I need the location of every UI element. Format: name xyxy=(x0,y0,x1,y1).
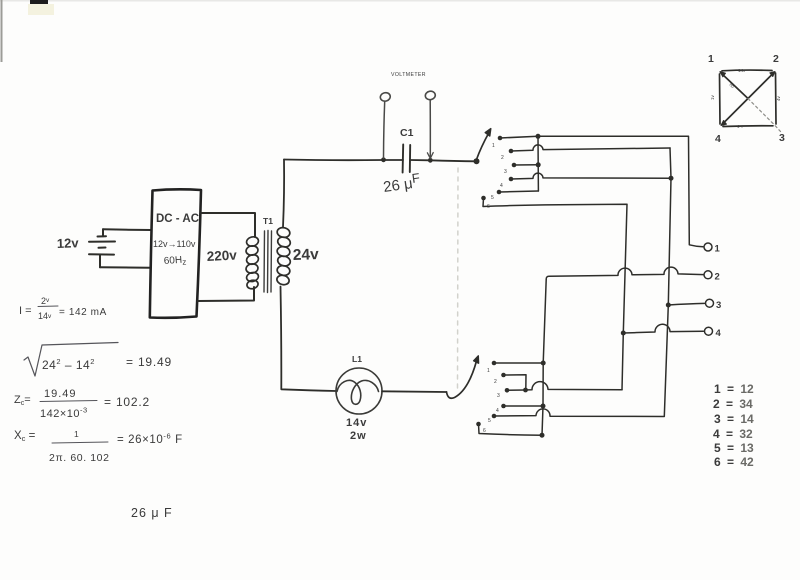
svg-text:C1: C1 xyxy=(400,127,414,139)
svg-text:Xc =: Xc = xyxy=(14,430,36,443)
wire S1 c5 to bus xyxy=(499,191,538,192)
svg-text:4: 4 xyxy=(500,183,503,189)
svg-text:4: 4 xyxy=(715,133,721,145)
svg-text:5: 5 xyxy=(488,418,491,424)
svg-text:3: 3 xyxy=(504,169,507,175)
svg-text:= 19.49: = 19.49 xyxy=(126,355,172,369)
wire S1 c6 to O4 vertical xyxy=(483,198,627,390)
svg-text:1 = 12: 1 = 12 xyxy=(714,382,754,396)
S1 contact 1 xyxy=(498,136,503,141)
diagonal 2-4 xyxy=(722,73,774,125)
dashed mechanical link xyxy=(457,168,460,388)
wire S1 c3 to bus xyxy=(514,164,538,166)
svg-text:1: 1 xyxy=(74,429,79,439)
node c4 junction xyxy=(669,176,674,181)
S2 contact 5 xyxy=(492,414,497,419)
arrowheads xyxy=(720,72,726,77)
output O2 xyxy=(704,271,712,279)
capacitor C1 xyxy=(403,145,411,173)
square bottom edge xyxy=(723,125,773,128)
node: voltmeter left junction xyxy=(381,157,386,162)
formula Z = 19.49 / 142x10^-3 = 102.2 xyxy=(14,388,150,420)
svg-text:= 142 mA: = 142 mA xyxy=(59,307,107,318)
S2 contact 6 xyxy=(476,422,481,427)
transformer T1 secondary coil (24V) xyxy=(276,226,292,285)
output O2 wire from bus2 corner xyxy=(546,267,703,279)
svg-text:1v: 1v xyxy=(710,94,715,100)
square left edge xyxy=(719,74,722,124)
S1 contact 5 xyxy=(497,190,502,195)
wire S2 c6 down and to bus2 end xyxy=(479,424,543,435)
node bc1 junction xyxy=(541,361,546,366)
wire secondary top to loop corner xyxy=(283,160,284,228)
wire box to transformer primary (top) xyxy=(201,213,255,237)
svg-text:220v: 220v xyxy=(206,247,237,264)
svg-text:4 ..: 4 .. xyxy=(737,124,743,129)
transformer core xyxy=(264,231,272,293)
wire loop top: corner to capacitor xyxy=(284,159,403,162)
S1 contact 6 xyxy=(481,196,486,201)
wire to O3 xyxy=(668,303,704,305)
svg-text:26 μ F: 26 μ F xyxy=(131,506,173,520)
svg-text:I =: I = xyxy=(19,305,32,317)
node O4 junction xyxy=(621,331,626,336)
S1 contact 4 xyxy=(509,177,514,182)
svg-text:6 = 42: 6 = 42 xyxy=(714,455,754,469)
switch S1 arm with arrow xyxy=(477,133,490,160)
diagonal center-3 dashed xyxy=(748,99,781,132)
battery 12V xyxy=(89,229,115,267)
svg-text:1: 1 xyxy=(492,143,495,149)
switch S1 pivot node xyxy=(474,158,480,164)
svg-text:4: 4 xyxy=(496,408,499,414)
square diagram node labels xyxy=(720,70,781,131)
svg-text:2: 2 xyxy=(773,53,779,65)
lamp filament xyxy=(337,380,379,404)
bus2 vertical (O2 net) xyxy=(542,280,546,436)
square right edge xyxy=(775,73,778,124)
svg-text:4 = 32: 4 = 32 xyxy=(713,427,753,441)
svg-text:4: 4 xyxy=(716,328,722,339)
node c3 bus junction xyxy=(536,162,541,167)
transformer T1 primary coil (220V) xyxy=(245,236,259,290)
wire capacitor to switch pivot xyxy=(410,160,476,161)
wire bottom c3 net to c6 vertical (hop over bus2) xyxy=(507,382,622,391)
voltmeter terminal left xyxy=(379,92,391,103)
wire lamp to S2 xyxy=(382,390,447,393)
S1 contact 2 xyxy=(509,149,514,154)
svg-text:14v: 14v xyxy=(38,311,52,321)
svg-text:1: 1 xyxy=(487,368,490,374)
square faint edge labels xyxy=(710,68,781,129)
svg-text:2: 2 xyxy=(501,155,504,161)
wire S2 c4 to bus2 xyxy=(504,405,544,407)
wire battery to DC-AC box (bottom) xyxy=(100,266,151,269)
wire S2 c1 to bus2 xyxy=(494,362,543,364)
formula I = 2v/14v = 142 mA xyxy=(19,296,107,321)
wire to O4 (hop over vertical) xyxy=(623,324,703,333)
svg-text:VOLTMETER: VOLTMETER xyxy=(391,72,426,78)
lamp L1 xyxy=(336,368,382,414)
svg-text:1: 1 xyxy=(715,244,721,255)
S1 contact labels xyxy=(487,143,507,210)
svg-text:3: 3 xyxy=(716,300,721,311)
wire bus c1-c3-c5 xyxy=(537,136,539,191)
voltmeter lead left xyxy=(384,101,385,158)
svg-text:3 = 14: 3 = 14 xyxy=(714,412,754,426)
output O1 xyxy=(704,243,712,251)
S2 contact 4 xyxy=(501,404,506,409)
svg-text:2: 2 xyxy=(715,272,720,283)
node O3 junction xyxy=(666,303,671,308)
node bc4 junction xyxy=(541,404,546,409)
output O4 xyxy=(705,327,713,335)
legend list 1=12 ... 6=42 xyxy=(713,382,754,469)
svg-text:T1: T1 xyxy=(263,216,273,226)
svg-text:L1: L1 xyxy=(352,354,362,364)
node c1 bus junction xyxy=(536,134,541,139)
formula Xc = 1/(2pi.60.102) = 26x10^-6 F xyxy=(14,429,183,464)
formula sqrt(24^2 - 14^2) = 19.49 xyxy=(24,343,172,377)
output O3 xyxy=(706,299,714,307)
wire S2 c2 L-link to c3 node xyxy=(504,375,527,390)
svg-text:3: 3 xyxy=(497,393,500,399)
diagonal 1-center xyxy=(721,73,749,99)
switch S2 arm with arrow xyxy=(447,361,477,398)
node bottom c2/c3 junction xyxy=(523,388,528,393)
wire battery to DC-AC box (top) xyxy=(103,228,151,231)
wire secondary bottom to lamp xyxy=(281,287,337,392)
S2 contact labels xyxy=(483,368,500,434)
DC-AC converter box U1 xyxy=(150,189,201,317)
square top edge xyxy=(722,69,772,72)
wire S1 c1 to O1 (via top bus) xyxy=(500,136,703,247)
svg-text:5 = 13: 5 = 13 xyxy=(714,441,754,455)
S2 contact 3 xyxy=(505,388,510,393)
svg-text:19.49: 19.49 xyxy=(44,388,77,400)
wire S1 c4 to vertical (hop over bus) xyxy=(511,173,671,179)
voltmeter terminal right xyxy=(425,90,437,100)
node bc6 junction xyxy=(540,433,545,438)
svg-text:12v: 12v xyxy=(57,235,80,251)
wire vertical c2/c4 down to O3 junction and bottom c5 xyxy=(494,148,671,417)
svg-text:12v→110v: 12v→110v xyxy=(153,239,196,249)
S1 contact 3 xyxy=(512,163,517,168)
svg-text:14v: 14v xyxy=(346,417,367,429)
svg-text:2: 2 xyxy=(494,379,497,385)
svg-text:2w: 2w xyxy=(350,430,367,442)
S2 contact 1 xyxy=(492,361,497,366)
wire S1 c2 to vertical (hop over bus) xyxy=(511,145,670,151)
wire transformer primary to box (bottom) xyxy=(198,287,254,301)
svg-text:3: 3 xyxy=(779,132,785,144)
S2 contact 2 xyxy=(501,373,506,378)
svg-text:14v: 14v xyxy=(738,68,746,73)
svg-text:= 26×10-6 F: = 26×10-6 F xyxy=(117,432,183,447)
svg-text:5: 5 xyxy=(491,195,494,201)
svg-text:2π. 60. 102: 2π. 60. 102 xyxy=(49,452,110,464)
svg-text:= 102.2: = 102.2 xyxy=(104,395,150,409)
svg-text:242 – 142: 242 – 142 xyxy=(42,357,95,372)
svg-text:1: 1 xyxy=(708,53,714,65)
svg-text:4v: 4v xyxy=(776,95,781,101)
voltmeter lead right xyxy=(429,100,431,157)
svg-text:DC - AC: DC - AC xyxy=(156,213,199,225)
svg-text:24v: 24v xyxy=(293,246,320,264)
svg-text:2 = 34: 2 = 34 xyxy=(713,397,753,411)
node: voltmeter right junction xyxy=(428,158,433,163)
